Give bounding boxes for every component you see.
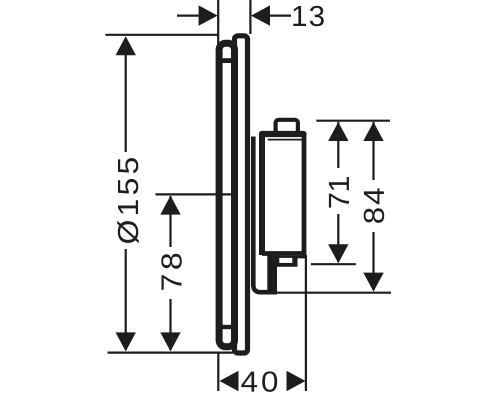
- dim 40: left extension line: [217, 352, 219, 391]
- dim 84: bottom reference line (also sleeve bottom extension): [275, 292, 392, 294]
- handle knob body right edge: [302, 134, 307, 258]
- dim 84: down arrowhead: [363, 273, 383, 292]
- dim 71: up arrowhead: [328, 122, 348, 141]
- cartridge stem below handle: [267, 253, 277, 291]
- dim 71: dimension line upper segment: [337, 122, 339, 168]
- dim 84: dimension line upper segment: [372, 122, 374, 180]
- knob bottom right corner fill: [298, 256, 306, 259]
- dim 78: top reference line: [155, 193, 233, 195]
- dim 40: left arrowhead (pointing left): [220, 371, 239, 391]
- dim 78: dimension line lower segment: [169, 299, 171, 350]
- dim 13: value label: [293, 6, 324, 27]
- dim 40: value label: [241, 371, 277, 392]
- dim 84: value label (rotated): [364, 188, 385, 223]
- bottom step piece under knob: [277, 256, 298, 267]
- dim Ø155: value label (rotated): [117, 158, 139, 243]
- dim Ø155: up arrowhead: [116, 36, 136, 55]
- handle knob bottom cap: [262, 251, 304, 256]
- dim 13: right arrow tail: [270, 15, 292, 17]
- dim 71: dimension line lower segment: [337, 214, 339, 262]
- dim Ø155: dimension line lower segment: [125, 249, 127, 350]
- bottom step piece groove: [279, 258, 292, 263]
- escutcheon plate (13mm front slab): [235, 36, 248, 353]
- dim 84: up arrowhead: [363, 122, 383, 141]
- sleeve (collar behind handle): [253, 137, 277, 293]
- handle knob top cap: [262, 131, 304, 137]
- dim 13: right extension line: [249, 0, 251, 34]
- dim 13: right arrowhead: [251, 5, 270, 25]
- dim 13: left arrow tail: [177, 15, 200, 17]
- dim 78: dimension line upper segment: [169, 196, 171, 247]
- dim 71+84: top reference line: [316, 120, 390, 122]
- dim Ø155: top reference line: [105, 34, 218, 36]
- dim 40: right arrowhead (pointing right): [287, 371, 306, 391]
- dim 71: bottom reference line: [311, 263, 356, 265]
- dim Ø155: dimension line upper segment: [125, 38, 127, 152]
- select button on top of knob: [276, 120, 298, 134]
- dim 71: down arrowhead: [328, 244, 348, 263]
- dim 40: right extension line: [305, 255, 307, 391]
- dim Ø155: down arrowhead: [116, 332, 136, 351]
- handle knob body left edge: [259, 134, 265, 255]
- dim 78: down arrowhead: [160, 332, 180, 351]
- handle knob inner top line: [268, 139, 302, 141]
- dim 84: dimension line lower segment: [372, 232, 374, 290]
- dim 13: left extension line: [217, 0, 219, 45]
- dim 13: left arrowhead: [199, 5, 218, 25]
- wall flange (back escutcheon outline): [219, 43, 234, 347]
- dim 78: value label (rotated): [161, 254, 182, 290]
- flange slot divider bottom: [222, 325, 233, 329]
- dim 71: value label (rotated): [329, 177, 349, 208]
- dim 78: up arrowhead: [160, 196, 180, 215]
- dim Ø155: bottom reference line: [108, 352, 234, 354]
- flange slot divider top: [222, 58, 233, 63]
